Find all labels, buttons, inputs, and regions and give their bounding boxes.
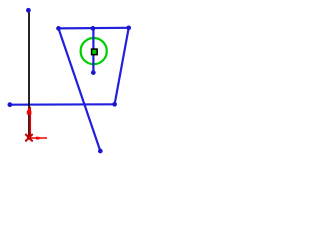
wire: vertical segment through circle <box>92 28 94 72</box>
node: left end of horizontal line <box>7 102 12 107</box>
node: top edge midpoint <box>91 26 96 31</box>
node: top of black line <box>26 8 31 13</box>
wire: left diagonal <box>59 28 101 151</box>
node: trapezoid top-left vertex <box>56 26 61 31</box>
circle C1 (green) <box>81 38 107 64</box>
origin point X mark <box>25 134 32 141</box>
origin point center dot <box>27 136 31 140</box>
origin X-axis shaft (red) <box>29 137 47 139</box>
origin Y-axis arrowhead <box>27 111 32 115</box>
construction line (black vertical) <box>28 12 30 137</box>
wire: horizontal line <box>10 103 115 106</box>
origin Y-axis shaft (red) <box>29 107 31 138</box>
wire: trapezoid top edge <box>59 27 129 30</box>
node: bottom end of left diagonal <box>98 149 103 154</box>
center point marker (green square, black border) <box>92 49 98 55</box>
origin X-axis arrowhead <box>36 137 39 140</box>
node: bottom end of vertical segment <box>91 70 96 75</box>
node: trapezoid top-right vertex <box>126 25 131 30</box>
node: junction of right diagonal and horizontal line <box>112 102 117 107</box>
wire: right diagonal <box>115 28 129 105</box>
